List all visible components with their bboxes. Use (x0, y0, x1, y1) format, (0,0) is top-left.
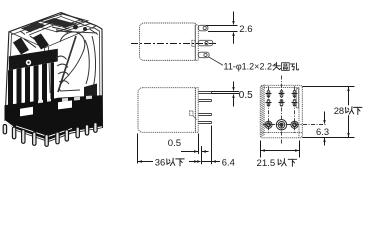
extension line flange right (198, 134, 200, 155)
dim 36以下 line (138, 161, 199, 163)
top face mechanism sketch (20, 14, 91, 35)
inner bottom edge (261, 132, 302, 134)
bottom extension line (302, 137, 354, 139)
coil on right face (56, 27, 99, 92)
right edge slot (296, 89, 298, 109)
21.5 extension lines (261, 141, 300, 158)
dim 28以下 line with arrows (348, 87, 350, 138)
top extension line (302, 86, 354, 88)
leader line to hole note (209, 57, 224, 66)
terminal circles row (265, 120, 298, 130)
bottom view body (138, 88, 195, 133)
pins (two slanted rows forming V) (3, 123, 97, 147)
svg-text:21.5: 21.5 (257, 158, 276, 169)
svg-text:0.5: 0.5 (239, 90, 253, 101)
svg-text:6.4: 6.4 (222, 156, 235, 167)
center line (131, 43, 216, 45)
dim 6.3 arrows (324, 112, 326, 146)
base flange strip (195, 88, 198, 133)
note CJK: 长圆孔 (273, 62, 298, 70)
hatched left edge (261, 85, 265, 137)
cover inner edges (8, 13, 100, 127)
terminal tab top (198, 25, 208, 31)
coil dark blob (84, 84, 97, 102)
dim 0.5 arrows (233, 82, 235, 107)
oblong holes row 1 (266, 91, 298, 98)
terminal blade 4 (199, 122, 212, 124)
latch tab (190, 111, 193, 116)
extension line 0.5 right (201, 146, 203, 164)
base white step notches (20, 107, 33, 117)
base bottom plate edges (5, 121, 102, 141)
terminal blade 1 (199, 92, 212, 94)
side view body (140, 23, 196, 60)
base flange strip (195, 25, 198, 61)
terminal tab middle (198, 40, 213, 46)
dim 2.6 extension lines (206, 26, 238, 32)
svg-text:2.6: 2.6 (239, 24, 252, 35)
inner right edge (298, 88, 300, 138)
svg-text:6.3: 6.3 (316, 126, 329, 137)
oblong holes row 2 (266, 100, 298, 107)
svg-text:11-φ1.2×2.2: 11-φ1.2×2.2 (224, 62, 272, 72)
extension line left (137, 134, 139, 164)
svg-text:0.5: 0.5 (168, 138, 181, 149)
terminal blade 3 (199, 114, 212, 116)
contact spring stack (vertical black bars) (8, 62, 54, 106)
dim 0.5 bottom bracket (181, 151, 209, 153)
base teeth highlights (62, 96, 92, 102)
armature pivot circle (26, 60, 31, 65)
base vent slits (38, 99, 51, 104)
dim text 6.3 (316, 127, 330, 137)
dim 21.5以下 line (261, 150, 300, 152)
dim text 28以下 (333, 105, 362, 115)
terminal blade 2 (199, 100, 212, 102)
relay case outline (5, 13, 103, 142)
armature wedges above bar (13, 38, 29, 55)
bottom view outline (260, 85, 302, 138)
circles row center line (263, 124, 327, 126)
column center lines (269, 86, 295, 133)
dim 0.5 blade extension lines (212, 92, 240, 94)
armature bar (9, 49, 58, 70)
dim 2.6 arrows (233, 12, 235, 44)
terminal tab bottom (198, 52, 209, 58)
dim 6.4 arrows (202, 161, 221, 163)
latch tab (192, 40, 196, 46)
extension line blade tip (211, 126, 213, 165)
svg-text:36: 36 (155, 156, 165, 167)
inner top edge (264, 87, 299, 89)
svg-text:28: 28 (334, 105, 344, 116)
relay base (black) (5, 95, 103, 141)
